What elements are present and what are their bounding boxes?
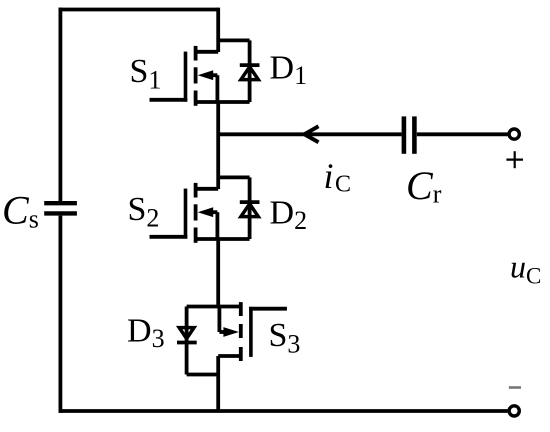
wire: Cr to plus terminal — [417, 132, 508, 136]
wire: top rail — [59, 8, 219, 12]
wire: left rail lower — [59, 216, 63, 413]
wire: S2 source to S3 top — [216, 239, 220, 307]
diode D2 — [218, 177, 259, 239]
terminal minus (bottom right) — [509, 406, 519, 416]
plus sign — [506, 151, 523, 168]
current arrow iC — [304, 126, 318, 142]
capacitor Cs — [44, 203, 77, 213]
terminal plus (top right) — [509, 129, 519, 139]
capacitor Cr — [404, 116, 415, 153]
mosfet S1 — [150, 46, 250, 106]
wire: output middle left segment — [218, 132, 401, 136]
wire: bottom rail — [59, 409, 508, 413]
wire: S1 source to S2 drain — [216, 102, 220, 189]
wire: left rail upper — [59, 8, 63, 201]
wire: bus top rail to S1 drain — [216, 8, 220, 52]
diode D1 — [218, 40, 259, 102]
wire: S3 drain to bottom rail — [216, 356, 220, 411]
diode D3 — [177, 307, 218, 375]
mosfet S2 — [150, 183, 250, 243]
mosfet S3 — [187, 302, 287, 361]
minus sign — [509, 386, 521, 389]
